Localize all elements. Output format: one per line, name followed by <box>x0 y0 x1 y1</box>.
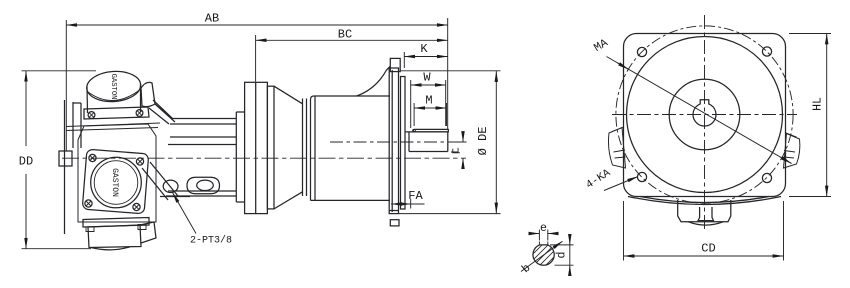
dim L ext top <box>448 141 467 143</box>
front view vertical centerline <box>704 15 706 232</box>
front cylinder circle <box>91 157 142 208</box>
svg-text:Ø DE: Ø DE <box>476 127 490 156</box>
front view horizontal centerline <box>612 114 797 116</box>
dim K line <box>404 56 447 58</box>
top cylinder cap inner ellipse <box>88 90 140 101</box>
dim M ext <box>413 103 415 126</box>
flange top corner lug <box>390 58 400 71</box>
adapter tube top lines <box>170 119 236 125</box>
dim M line <box>414 107 446 109</box>
svg-text:W: W <box>423 71 431 85</box>
right tab inner lines <box>784 133 797 159</box>
dim MA diagonal line <box>607 57 792 164</box>
dim BC ext left <box>255 35 257 82</box>
dim FA ext ticks <box>410 199 412 209</box>
dim BC line <box>256 39 448 41</box>
lower box lip <box>91 247 130 250</box>
dim DD ext top <box>22 70 97 72</box>
bolt hole bottom-left <box>637 172 646 181</box>
big housing circle <box>627 37 783 193</box>
shaft <box>405 132 448 152</box>
flange bottom rung <box>389 210 399 212</box>
bottom bolt left <box>86 227 94 232</box>
dim DD ext bottom <box>22 248 92 250</box>
left tab inner lines <box>612 127 626 158</box>
upper wedge diagonals <box>149 100 175 124</box>
dim DE vertical line <box>495 71 497 214</box>
output flange plate <box>389 68 398 214</box>
flange disc <box>245 82 268 213</box>
svg-text:2-PT3/8: 2-PT3/8 <box>190 235 232 247</box>
svg-text:FA: FA <box>408 189 423 203</box>
svg-text:DD: DD <box>19 155 33 169</box>
cone <box>274 86 303 209</box>
dim DE ext top <box>400 70 501 72</box>
shaft hole with keyway <box>693 100 716 126</box>
adapter tube bottom lines <box>166 191 236 196</box>
dim W ext <box>410 80 412 128</box>
dim HL ext top <box>789 33 831 35</box>
dim AB ext left <box>65 20 67 151</box>
dim AB ext right <box>447 18 449 129</box>
bottom boss cap ellipse <box>688 222 724 225</box>
flange bolt top-left <box>89 154 96 161</box>
leader 4-KA <box>604 177 638 191</box>
motor centerline <box>62 157 466 159</box>
shaft centerline <box>330 141 452 143</box>
bolt hole top-right <box>762 47 771 56</box>
svg-text:L: L <box>451 147 463 154</box>
dim CD ext left <box>623 201 625 261</box>
dim K ext left <box>403 52 405 68</box>
svg-text:GASTON: GASTON <box>109 74 117 100</box>
motor left tab <box>59 151 72 166</box>
top cylinder cap ellipse <box>86 70 142 104</box>
muffler hump right of top cylinder <box>141 82 155 106</box>
dim d ext <box>550 244 574 246</box>
top flange bolt left <box>88 112 95 119</box>
dim e ext <box>538 230 540 241</box>
svg-text:e: e <box>540 222 547 235</box>
middle hub circle <box>669 79 740 150</box>
bottom boss inner rect <box>698 207 714 221</box>
lower box <box>88 225 141 248</box>
dim HL ext bottom <box>789 196 831 198</box>
front cylinder inner ring <box>94 161 138 205</box>
motor left face <box>64 100 66 234</box>
square flange <box>624 34 786 197</box>
disc back plate <box>236 112 244 202</box>
spigot ring <box>401 77 406 210</box>
svg-text:K: K <box>420 42 428 56</box>
flange bottom corner lug <box>390 220 399 226</box>
leader 2-PT3/8 <box>173 193 197 234</box>
top cylinder base flange <box>84 107 149 119</box>
square bottom sag curve <box>628 197 781 205</box>
left tab <box>608 128 625 169</box>
svg-text:HL: HL <box>812 97 825 111</box>
section circle with key flat <box>533 245 554 265</box>
dim e line <box>530 233 540 235</box>
flange bolt bottom-right <box>133 203 140 210</box>
port ellipse 2 <box>197 180 214 190</box>
svg-text:MA: MA <box>592 37 611 55</box>
svg-text:CD: CD <box>701 242 715 256</box>
flange disc seam <box>255 82 257 213</box>
svg-text:GASTON: GASTON <box>110 168 119 197</box>
key on shaft <box>413 129 449 132</box>
gearbox body inner vertical <box>314 97 316 201</box>
leader b diagonal <box>521 241 563 271</box>
port ellipse 1 <box>163 180 178 192</box>
adapter tube mid lines <box>168 137 236 145</box>
flange bolt bottom-left <box>85 200 92 207</box>
disc ring <box>267 86 274 209</box>
bottom boss outer <box>678 200 731 222</box>
svg-text:M: M <box>425 94 432 108</box>
bell curve top <box>357 67 391 97</box>
neck ring <box>303 99 307 197</box>
bottom bolt right <box>138 225 146 230</box>
dim d line <box>569 235 571 245</box>
top flange bolt right <box>136 110 143 117</box>
dim DD line <box>25 71 27 146</box>
dim W line <box>411 84 446 86</box>
dim DE ext bottom <box>399 213 501 215</box>
dim CD ext right <box>783 201 785 261</box>
crankcase outline <box>78 124 156 222</box>
port boss plate <box>187 177 220 194</box>
right tab <box>784 134 800 169</box>
bolt hole top-left <box>637 47 646 56</box>
dim L ext bottom jog <box>453 149 460 153</box>
hatching <box>528 227 563 270</box>
bolt hole bottom-right <box>762 173 771 182</box>
gearbox body <box>311 96 391 200</box>
port shelf line <box>160 196 190 198</box>
svg-text:BC: BC <box>338 28 352 42</box>
motor bottom band <box>83 218 149 228</box>
front cylinder square flange <box>82 149 149 214</box>
crankcase top lines <box>66 123 160 131</box>
flange plate seam <box>391 70 393 212</box>
bolt circle dash-dot <box>616 26 793 203</box>
crankcase left vertical <box>72 102 74 148</box>
svg-text:AB: AB <box>205 12 219 26</box>
top cylinder body <box>87 84 141 113</box>
dim AB line <box>66 24 447 26</box>
lower box right slant piece <box>140 222 156 243</box>
dim L line <box>462 133 464 143</box>
lower wedge diagonals <box>142 162 178 200</box>
key left end tick <box>414 130 416 132</box>
flange bolt top-right <box>136 158 143 165</box>
svg-text:d: d <box>556 252 569 259</box>
dim HL line <box>826 34 828 197</box>
dim CD line <box>624 255 784 257</box>
key side ticks <box>539 242 547 245</box>
dim FA line <box>391 203 399 205</box>
